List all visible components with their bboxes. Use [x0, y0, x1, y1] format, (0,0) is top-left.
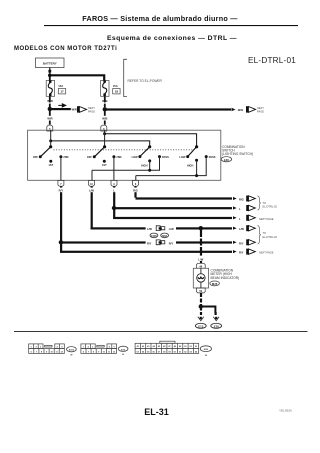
wire: pin 10 L/W down: [91, 187, 93, 230]
svg-text:NEXT: NEXT: [257, 106, 264, 110]
node: HIGH/PASS junction pole 4: [195, 174, 198, 177]
contact LOW (pole 3): [132, 155, 142, 159]
value label: 15A (F2): [113, 84, 118, 88]
separator rule: [14, 330, 308, 333]
text: NEXT PAGE (left): [88, 106, 95, 114]
svg-text:17: 17: [60, 90, 64, 94]
wire label R/G (row 1): [239, 198, 244, 202]
svg-text:EL-DTRL-02: EL-DTRL-02: [263, 235, 278, 239]
svg-text:W/R: W/R: [47, 116, 52, 120]
wire label L/W (row 4 left): [147, 227, 152, 231]
text: NEXT PAGE (right): [257, 106, 264, 114]
brace rows 4-5: [258, 226, 261, 244]
text: NEXT PAGE (row 6): [259, 251, 274, 255]
connector id oval M26 (face): [200, 346, 211, 357]
switch pin 6 (R/G): [133, 180, 139, 186]
connector id oval E30 (switch): [221, 157, 231, 162]
connector id oval E105 (face): [67, 347, 77, 357]
contact HIGH (pole 3): [141, 159, 151, 167]
switch pin 9 (L): [111, 180, 117, 186]
svg-text:PASS: PASS: [209, 155, 216, 159]
page connector arrow: NEXT PAGE (left): [77, 106, 87, 112]
connector id oval M26 (meter): [210, 281, 220, 286]
contact 1ST (pole 1): [48, 160, 53, 167]
ground terminal 2: [213, 317, 219, 321]
ground id oval E38: [211, 323, 222, 328]
contact OFF (pole 2): [87, 155, 96, 159]
svg-text:M26: M26: [212, 282, 218, 286]
svg-text:E13: E13: [198, 325, 203, 329]
svg-text:OFF: OFF: [87, 155, 93, 159]
node: battery feed junction: [48, 74, 52, 78]
svg-text:OFF: OFF: [33, 155, 39, 159]
svg-text:L/W: L/W: [239, 227, 244, 231]
wire: pin 9 L down: [113, 187, 115, 209]
high beam indicator bulb: [197, 268, 205, 288]
wire: L down to row 3: [113, 208, 115, 218]
wire: L/W row 4 left segment: [91, 227, 146, 229]
wire label L (row 2): [239, 207, 241, 211]
wire: F2 pin down to pivot 2: [104, 130, 105, 147]
svg-text:E105: E105: [69, 350, 75, 352]
svg-text:L/W: L/W: [89, 189, 94, 193]
svg-text:R/Y: R/Y: [147, 241, 152, 245]
mechanical linkage (dotted): [54, 149, 194, 151]
switch pin 10 (L/W): [89, 180, 95, 186]
svg-text:W/R: W/R: [72, 108, 77, 112]
node: junction below F2: [103, 107, 107, 111]
svg-text:2ND: 2ND: [63, 155, 68, 159]
page connector arrow row 5: [246, 239, 255, 245]
svg-text:PAGE: PAGE: [257, 109, 264, 113]
wire label R/Y (row 5 left): [147, 241, 152, 245]
svg-text:L/W: L/W: [147, 227, 152, 231]
wire: F2 to junction: [104, 96, 106, 107]
direction arrow row 2: [233, 206, 237, 209]
combination switch box: [28, 130, 221, 180]
bracket: REFER TO EL-POWER: [124, 59, 163, 96]
wire: junction down to switch pin 1 (W/R): [49, 111, 51, 125]
wire: R/Y row 5 right segment: [176, 241, 232, 243]
svg-text:E105: E105: [151, 235, 157, 238]
wire label L/W (row 4 end): [239, 227, 244, 231]
svg-text:R/G: R/G: [239, 198, 244, 202]
svg-text:L/W: L/W: [169, 227, 174, 231]
direction arrow row 3: [233, 216, 237, 219]
fuse number box 17: [58, 89, 65, 94]
switch pole 2 pivot: [103, 145, 106, 148]
switch pole 4 wiper: [188, 147, 196, 156]
svg-text:YEL0620: YEL0620: [279, 408, 292, 412]
svg-text:18: 18: [115, 90, 119, 94]
subtitle: Esquema de conexiones — DTRL —: [107, 35, 237, 42]
label: COMBINATION SWITCH (LIGHTING SWITCH): [222, 145, 253, 156]
svg-text:REFER TO EL-POWER: REFER TO EL-POWER: [128, 79, 163, 83]
wire: meter ground B: [200, 293, 202, 307]
svg-text:LOW: LOW: [132, 155, 139, 159]
battery: [36, 58, 65, 68]
svg-text:BATTERY: BATTERY: [43, 61, 57, 65]
wire: R/Y row 5 left segment: [61, 241, 146, 243]
svg-text:NEXT PAGE: NEXT PAGE: [259, 217, 274, 221]
svg-text:TO: TO: [263, 231, 267, 235]
svg-text:HIGH: HIGH: [187, 163, 194, 167]
fuse number box 18: [113, 89, 120, 94]
wire: R/Y row 6: [60, 251, 232, 253]
node: feed B junction on F2 wire: [49, 139, 52, 142]
wire: long branch to next page (right): [105, 108, 231, 110]
switch pole 1 pivot: [49, 145, 52, 148]
svg-text:EL-DTRL-01: EL-DTRL-01: [248, 56, 296, 65]
wire: L row 2: [114, 207, 232, 209]
wire label W/B (to switch): [102, 116, 107, 120]
wire label L/W (row 4 right): [169, 227, 174, 231]
svg-text:TO: TO: [263, 201, 267, 205]
svg-text:W/B: W/B: [102, 116, 107, 120]
node: junction on R/Y wire: [59, 240, 63, 244]
page connector arrow row 2: [246, 205, 255, 211]
wire: 2ND pole1 to pin R/Y: [60, 157, 61, 181]
wire label W/R (branch): [72, 108, 77, 112]
contact 1ST (pole 2): [102, 160, 107, 167]
wire label L/W (pin 10): [87, 188, 96, 193]
page connector arrow row 4: [246, 225, 255, 231]
contact LOW (pole 4): [179, 155, 189, 159]
text: TO EL-DTRL-02 (rows 1-2): [263, 201, 278, 209]
svg-text:FAROS — Sistema de alumbrado d: FAROS — Sistema de alumbrado diurno —: [82, 14, 238, 23]
wire: pin 6 R/G to row 1: [136, 187, 233, 199]
direction arrow row 4: [233, 227, 237, 230]
connector id oval M66 (inline): [161, 233, 169, 238]
svg-text:HIGH: HIGH: [141, 163, 148, 167]
wire label R/Y (row 6 end): [239, 251, 244, 255]
svg-text:L/W: L/W: [198, 257, 203, 261]
wire: down to ground 1: [200, 307, 202, 316]
wire: branch to ground 2: [201, 307, 216, 314]
wire: internal feed line A (to group 4 pivot): [105, 134, 197, 147]
svg-text:E30: E30: [224, 158, 229, 162]
meter pin 52: [196, 288, 205, 293]
connector id oval E30 (face): [118, 346, 128, 356]
wire stub ground 2: [215, 312, 217, 315]
svg-text:PAGE: PAGE: [88, 109, 95, 113]
svg-text:BEAM INDICATOR): BEAM INDICATOR): [211, 276, 240, 280]
svg-text:R/G: R/G: [133, 189, 138, 193]
label: COMBINATION METER (HIGH BEAM INDICATOR): [211, 269, 240, 280]
title: FAROS — Sistema de alumbrado diurno —: [82, 14, 238, 23]
terminal pin (top of switch, right): [101, 125, 107, 131]
wire: battery to junction: [48, 68, 51, 76]
label: MODELOS CON MOTOR TD27Ti: [14, 46, 117, 52]
contact OFF (pole 1): [33, 155, 42, 159]
direction arrow on branch: [58, 104, 65, 107]
wire: thick feed to fuse 2: [50, 75, 104, 80]
wire: F1 to junction: [49, 96, 51, 107]
connector face E105: [29, 344, 65, 354]
svg-text:R/Y: R/Y: [59, 189, 64, 193]
contact 2ND (pole 1): [59, 155, 68, 159]
wire label L (row 3): [239, 217, 241, 221]
node: ground branch junction: [199, 304, 203, 308]
direction arrow row 1: [233, 197, 237, 200]
wire label L (pin 9): [110, 188, 119, 193]
switch pole 3 pivot: [148, 145, 151, 148]
wire: L/W down to combination meter: [200, 228, 202, 255]
switch pin 7 (R/Y): [58, 180, 64, 186]
svg-text:NEXT PAGE: NEXT PAGE: [259, 251, 274, 255]
wire: feed down to fuse 1: [49, 75, 51, 81]
svg-text:1ST: 1ST: [102, 163, 107, 167]
wire: HIGH+PASS pole3 to pin L/W: [92, 157, 160, 181]
wire label W/B (right branch): [238, 108, 243, 112]
wire label W/R (to switch): [47, 116, 52, 120]
svg-text:EL-31: EL-31: [144, 407, 169, 417]
svg-text:LOW: LOW: [179, 155, 186, 159]
header rule: [44, 25, 298, 26]
svg-text:R/Y: R/Y: [169, 242, 174, 246]
svg-text:R/Y: R/Y: [239, 251, 244, 255]
svg-text:(LIGHTING SWITCH): (LIGHTING SWITCH): [222, 152, 253, 156]
svg-text:NEXT: NEXT: [88, 106, 95, 110]
wire label R/Y (row 5 end): [239, 241, 244, 245]
svg-text:MODELOS CON MOTOR TD27Ti: MODELOS CON MOTOR TD27Ti: [14, 46, 117, 52]
wire label W/B (below F2): [102, 99, 107, 103]
switch pole 2 wiper: [95, 147, 105, 156]
meter pin 44: [196, 263, 205, 268]
ground terminal 1: [198, 317, 204, 321]
text: NEXT PAGE (row 3): [259, 217, 274, 221]
wire label R/G (pin 6): [131, 188, 140, 193]
connector id oval E105 (inline): [150, 233, 158, 238]
wire: L row 3: [113, 217, 232, 219]
svg-text:Esquema de conexiones — DTRL —: Esquema de conexiones — DTRL —: [107, 35, 237, 42]
wire label R/Y (row 5 right): [169, 242, 174, 246]
brace rows 1-2: [258, 196, 261, 210]
text: TO EL-DTRL-02 (rows 4-5): [263, 231, 278, 239]
wire: pin 7 R/Y down: [60, 187, 62, 243]
wire: junction down to switch pin 2 (W/B): [104, 111, 106, 124]
terminal pin (top of switch, left): [47, 125, 53, 131]
contact HIGH (pole 4): [187, 159, 198, 168]
node: junction on L wire: [112, 206, 116, 210]
switch pole 3 wiper: [141, 147, 150, 156]
wire label L/W (meter feed): [198, 257, 203, 261]
wire: branch to next page (left): [50, 108, 71, 110]
contact 2ND (pole 2): [112, 155, 121, 159]
wire label W/R (below F1): [47, 99, 52, 103]
ground id oval E13: [195, 323, 206, 328]
direction arrow row 6: [233, 250, 237, 253]
wire: R/Y down to row 6: [60, 242, 62, 252]
page connector arrow row 3: [246, 215, 255, 221]
svg-text:PASS: PASS: [162, 155, 169, 159]
wire: F1 pin down to pivot 1: [50, 130, 51, 147]
svg-text:E38: E38: [214, 325, 219, 329]
direction arrow row 5: [233, 241, 237, 244]
wire: L/W row 4 right segment: [176, 227, 232, 229]
diagram id: EL-DTRL-01: [248, 56, 296, 65]
inline connector pair (row 5): [156, 240, 165, 245]
switch pole 4 pivot: [195, 145, 198, 148]
contact PASS (pole 4): [205, 155, 216, 159]
connector face E30: [81, 344, 117, 354]
page connector arrow row 1: [246, 196, 255, 202]
wire: internal feed line B (to group 3 pivot): [51, 141, 150, 147]
switch pole 1 wiper: [41, 147, 51, 156]
page number EL-31: [144, 407, 169, 417]
svg-text:2ND: 2ND: [116, 155, 121, 159]
connector face M26: [135, 341, 199, 353]
fuse F2 15A: [101, 80, 109, 96]
node: HIGH/PASS junction pole 3: [148, 169, 151, 172]
svg-text:EL-DTRL-02: EL-DTRL-02: [263, 205, 278, 209]
svg-text:15A: 15A: [58, 84, 63, 88]
value label: 15A (F1): [58, 84, 63, 88]
page connector arrow row 6: [246, 249, 255, 255]
svg-text:1ST: 1ST: [48, 163, 53, 167]
node: L/W branch junction to meter: [199, 226, 203, 230]
wire label R/Y (pin 7): [56, 188, 65, 193]
svg-text:W/B: W/B: [238, 108, 243, 112]
node: feed A junction on F1 wire: [103, 132, 106, 135]
node: junction below F1: [48, 107, 52, 111]
combination meter box: [193, 268, 208, 288]
wire: 2ND pole2 to pin L: [113, 157, 114, 181]
page connector arrow: NEXT PAGE (right): [246, 106, 256, 112]
contact PASS (pole 3): [158, 155, 169, 159]
svg-text:M66: M66: [162, 235, 167, 238]
svg-text:15A: 15A: [113, 84, 118, 88]
figure code YEL0620: [279, 408, 292, 412]
direction arrow on right branch: [232, 108, 236, 111]
wire: HIGH+PASS pole4 to pin R/G: [136, 157, 206, 181]
svg-text:R/Y: R/Y: [239, 241, 244, 245]
inline connector pair (row 4): [156, 226, 165, 231]
wire stub to pin 44: [200, 261, 202, 264]
fuse F1 15A: [46, 80, 54, 96]
